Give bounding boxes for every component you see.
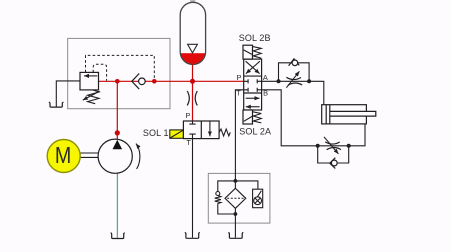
electric motor M1 [47, 140, 80, 173]
filter bypass spring [215, 196, 221, 204]
svg-text:P: P [237, 73, 242, 82]
clogging indicator box [253, 189, 263, 208]
filter assembly enclosure box [208, 173, 270, 223]
DV1 parallel-flow position arrow 2 [246, 106, 260, 108]
solenoid SOL 2A diagonal [244, 116, 252, 121]
FC2 junction dot right [347, 144, 351, 148]
orifice (restriction) on SOL1 feed [187, 91, 197, 105]
SOL 1 solenoid coil (yellow) [170, 130, 184, 138]
filter junction dot bottom [234, 212, 238, 216]
check valve CV1 poppet [139, 78, 146, 85]
SOL 1 valve body [183, 121, 219, 139]
clogging indicator gauge [254, 197, 262, 205]
DV1 centre position blocked stub P [244, 79, 248, 83]
suction line (teal) [116, 173, 118, 238]
tank T3 (filter drain) [228, 232, 243, 238]
DV1 top spring [253, 47, 261, 59]
flow control FC1 bypass loop [279, 63, 310, 82]
wire: A port line to cylinder cap end [262, 81, 324, 104]
FC2 check valve poppet [331, 160, 337, 166]
accumulator gas triangle [188, 44, 198, 53]
SOL 1 blocked port T stub [189, 134, 195, 139]
tank T4 (pump suction) [111, 233, 125, 239]
accumulator fluid fill (red) [180, 53, 205, 64]
FC1 adjustable arrow [286, 71, 299, 87]
enclosure box: power unit manifold [68, 38, 170, 108]
wire: filter to indicator [235, 181, 258, 189]
junction dot rail/pump riser [115, 79, 120, 84]
svg-text:T: T [186, 138, 191, 147]
tank T1 (relief drain) [49, 102, 64, 107]
wire: red riser rail to pump outlet [116, 81, 118, 139]
wire: directional valve T to filter [235, 90, 243, 189]
junction dot rail/pilot line [152, 79, 157, 84]
wire: rail down to SOL1 valve P (red) [192, 81, 194, 121]
svg-text:SOL 2B: SOL 2B [239, 33, 271, 43]
svg-text:T: T [236, 88, 241, 97]
cylinder CYL1 body [322, 105, 367, 124]
flow control FC2 bypass loop [318, 146, 349, 163]
wire: filter to tank [234, 208, 236, 237]
wire: B port line to flow control FC2 [262, 90, 365, 146]
FC2 check valve seat [330, 158, 336, 169]
svg-text:A: A [263, 73, 268, 82]
FC2 throttle arcs [325, 142, 341, 150]
junction dot rail/accumulator [190, 79, 195, 84]
relief valve RV1 spring [88, 90, 99, 104]
SOL 1 open position arrow P to T [209, 121, 211, 136]
filter bypass wire left [218, 181, 236, 214]
solenoid SOL 2B coil box [243, 45, 253, 59]
svg-text:P: P [185, 111, 190, 120]
cylinder rod [330, 112, 375, 116]
pump flow triangle [113, 140, 123, 149]
solenoid SOL 2B diagonal [244, 50, 252, 55]
accumulator shell [180, 2, 205, 64]
pump P1 circle [98, 139, 132, 173]
wire: relief valve drain to tank [56, 81, 80, 107]
filter junction dot top [234, 179, 238, 183]
svg-text:SOL 2A: SOL 2A [239, 126, 271, 136]
FC1 check valve seat [289, 59, 300, 66]
pump outlet port dot [115, 130, 120, 135]
wire: SOL 1 T to tank [192, 139, 194, 238]
relief valve RV1 adjustment arrow [83, 91, 100, 100]
DV1 centre position blocked stub T [244, 88, 248, 92]
FC2 adjustable arrow [324, 137, 338, 154]
pressure rail (red) node P [99, 80, 244, 82]
svg-text:M: M [55, 142, 71, 168]
FC1 throttle arcs [286, 77, 302, 85]
pilot line (dashed) remote vent line [86, 55, 155, 79]
pilot line (dashed) small loop to relief valve top [93, 64, 106, 81]
relief valve RV1 arrow [84, 75, 97, 77]
check valve CV1 seat [132, 74, 139, 90]
SOL 1 return spring [219, 129, 230, 136]
wire: accumulator to rail (red) [192, 64, 194, 81]
cylinder piston [326, 105, 330, 124]
svg-text:SOL 1: SOL 1 [143, 128, 169, 138]
DV1 bottom spring [253, 112, 261, 123]
filter bypass check poppet [216, 192, 220, 196]
DV1 parallel-flow position arrow 1 [246, 97, 260, 99]
DV1 centre position blocked stub A [257, 79, 261, 83]
FC1 junction dot right [307, 79, 311, 83]
FC1 check valve poppet [292, 60, 298, 66]
solenoid SOL 2A coil box [243, 110, 253, 124]
filter element mesh (dashed) [227, 197, 243, 199]
filter element F1 (diamond) [225, 188, 246, 208]
FC2 junction dot left [316, 144, 320, 148]
motor shaft (double line) [80, 153, 98, 157]
DV1 centre position blocked stub B [257, 88, 261, 92]
tank T2 (SOL1 drain) [185, 232, 200, 238]
SOL 1 valve position divider [200, 121, 202, 139]
SOL 1 solenoid diagonal [170, 130, 183, 138]
FC1 junction dot left [277, 79, 281, 83]
SOL 1 blocked port P stub [189, 121, 195, 124]
svg-text:B: B [263, 88, 268, 97]
directional valve position dividers [244, 76, 262, 93]
directional valve DV1 body [244, 59, 262, 110]
pump rotation arrow [136, 144, 140, 169]
DV1 crossed-flow position arrows [246, 61, 260, 73]
relief valve RV1 body [80, 72, 99, 90]
accumulator top stub [190, 0, 195, 2]
